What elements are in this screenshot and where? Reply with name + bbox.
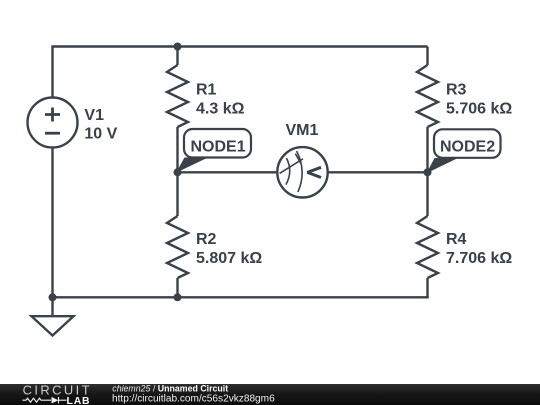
- ground: [32, 316, 74, 335]
- junction dot NODE2: [424, 168, 432, 176]
- label VM1: [286, 122, 319, 139]
- label V1 10 V: [84, 107, 117, 143]
- node NODE2 flag: [427, 129, 501, 173]
- label R4 7.706 kOhm: [446, 231, 512, 267]
- svg-text:5.706 kΩ: 5.706 kΩ: [446, 100, 512, 117]
- svg-text:V1: V1: [84, 107, 104, 124]
- resistor R2: [167, 172, 188, 297]
- wire: node row left segment (NODE1 to VM1): [178, 171, 278, 173]
- label R1 4.3 kOhm: [196, 82, 245, 118]
- wire: bottom rail: [53, 296, 429, 298]
- svg-text:R4: R4: [446, 231, 467, 248]
- label R3 5.706 kOhm: [446, 82, 512, 118]
- wire: top rail from V1 top to R3 top: [53, 45, 428, 47]
- svg-text:LAB: LAB: [67, 396, 91, 405]
- svg-text:VM1: VM1: [286, 122, 319, 139]
- wire: node row right segment (VM1 to NODE2): [328, 171, 428, 173]
- svg-text:4.3 kΩ: 4.3 kΩ: [196, 100, 245, 117]
- svg-text:R2: R2: [196, 231, 217, 248]
- resistor R4: [417, 172, 438, 297]
- label R2 5.807 kOhm: [196, 231, 262, 267]
- node NODE1 flag: [176, 129, 251, 173]
- svg-text:NODE2: NODE2: [440, 139, 495, 156]
- svg-text:NODE1: NODE1: [191, 138, 246, 155]
- wire: left vertical above V1: [51, 45, 53, 97]
- CircuitLab footer bar: [0, 382, 540, 405]
- svg-text:chiemn25 / Unnamed Circuit: chiemn25 / Unnamed Circuit: [112, 383, 228, 393]
- resistor R1: [167, 47, 188, 173]
- svg-text:R1: R1: [196, 82, 217, 99]
- svg-text:http://circuitlab.com/c56s2vkz: http://circuitlab.com/c56s2vkz88gm6: [112, 393, 275, 404]
- junction dot at top rail / R1: [174, 43, 182, 51]
- resistor R3: [417, 47, 438, 173]
- junction dot bottom rail / ground: [49, 293, 57, 301]
- svg-text:10 V: 10 V: [84, 126, 117, 143]
- svg-text:R3: R3: [446, 82, 467, 99]
- junction dot NODE1: [174, 168, 182, 176]
- svg-text:7.706 kΩ: 7.706 kΩ: [446, 250, 512, 267]
- junction dot bottom rail / R2: [174, 293, 182, 301]
- svg-text:5.807 kΩ: 5.807 kΩ: [196, 250, 262, 267]
- voltage source V1: [28, 98, 78, 148]
- voltmeter VM1: [277, 147, 327, 197]
- wire: left vertical below V1 down to ground stub: [51, 148, 53, 317]
